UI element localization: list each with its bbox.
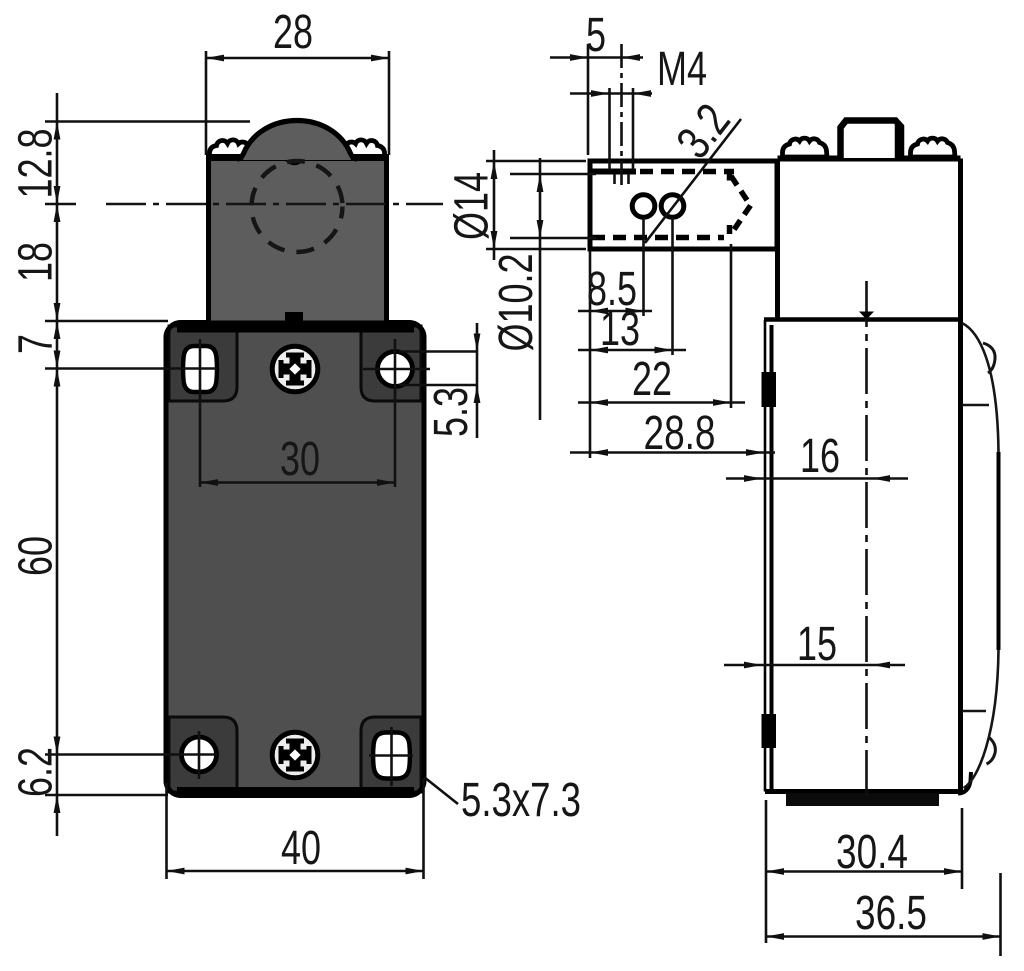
dimension O10.2	[490, 158, 596, 420]
side head block	[590, 161, 777, 249]
side body lower	[762, 320, 972, 794]
dimension 5.3 (hole dia, right of top-right screw)	[399, 323, 480, 438]
extension line body bottom	[45, 794, 168, 797]
label 3.2 with leader	[645, 95, 741, 243]
svg-text:16: 16	[800, 430, 840, 483]
dimension 36.5	[766, 873, 1001, 956]
phillips screw bottom-center	[272, 732, 318, 778]
svg-text:M4: M4	[657, 43, 707, 96]
phillips screw top-center	[272, 346, 318, 392]
cover tick bottom	[962, 710, 986, 713]
side cover bulge	[962, 323, 999, 788]
dimension 8.5	[578, 218, 652, 458]
dimension 30.4	[766, 800, 962, 943]
contact hole 1 (side)	[632, 195, 655, 218]
side body upper	[778, 159, 961, 792]
svg-text:5.3x7.3: 5.3x7.3	[461, 774, 581, 827]
dimension 16	[726, 430, 908, 483]
cover screw bump bottom	[987, 737, 996, 764]
dimension O14	[446, 150, 587, 260]
svg-text:36.5: 36.5	[855, 887, 927, 940]
svg-text:28: 28	[273, 6, 313, 59]
corner pocket bottom-right	[361, 717, 421, 792]
dome actuator	[243, 120, 351, 160]
contact hole 2 (side)	[661, 195, 684, 218]
screw hole bottom-left	[182, 731, 217, 779]
svg-text:6.2: 6.2	[10, 747, 63, 797]
body outline redraw	[166, 323, 424, 796]
svg-text:22: 22	[632, 353, 672, 406]
horizontal centerline through head	[106, 203, 443, 206]
switch body (front)	[166, 323, 424, 796]
svg-text:5: 5	[586, 9, 606, 62]
dimension 28 (head width)	[206, 6, 389, 155]
label 5.3x7.3 with leader	[424, 774, 581, 827]
dimension 15	[724, 618, 905, 671]
svg-text:60: 60	[10, 536, 63, 576]
extension line bottom screw center	[45, 753, 217, 756]
svg-text:18: 18	[10, 242, 63, 282]
bellows ear left (front)	[210, 140, 254, 157]
plunger on top	[841, 121, 902, 159]
extension line dome top	[45, 120, 250, 123]
dome chin notch	[287, 161, 302, 164]
svg-text:5.3: 5.3	[425, 387, 478, 437]
svg-text:30.4: 30.4	[836, 826, 908, 879]
dimension 5 (top)	[550, 9, 643, 155]
body bottom black band	[177, 787, 414, 795]
dimension 40 (body width)	[167, 779, 424, 879]
svg-text:Ø14: Ø14	[446, 172, 499, 240]
svg-text:13: 13	[600, 303, 640, 356]
screw slot top-left	[183, 339, 217, 487]
screw slot bottom-right	[369, 727, 413, 786]
bottom plate	[786, 793, 939, 806]
head-body junction tab	[285, 312, 303, 322]
dimension 13	[578, 218, 686, 356]
dashed slot in side head	[592, 172, 751, 238]
centerline tick triangle at body top	[859, 312, 874, 320]
svg-text:15: 15	[797, 618, 837, 671]
svg-text:28.8: 28.8	[644, 407, 716, 460]
extension tick centerline level	[45, 203, 76, 206]
dimension 28.8	[570, 407, 775, 460]
svg-text:40: 40	[281, 822, 321, 875]
svg-text:Ø10.2: Ø10.2	[490, 254, 543, 352]
chain arrows	[54, 122, 61, 140]
svg-text:30: 30	[280, 433, 320, 486]
screw hole top-right	[363, 339, 430, 487]
svg-text:7: 7	[10, 334, 63, 354]
extension line body top	[45, 320, 168, 323]
bellows ear right (front)	[341, 140, 385, 157]
head top line	[206, 154, 389, 161]
dimension M4	[570, 43, 707, 97]
corner pocket bottom-left	[169, 717, 237, 792]
M4 thread lines	[610, 44, 634, 187]
left dimension chain vertical line	[56, 93, 59, 836]
bellows ear left (side)	[783, 138, 828, 157]
cover tick top	[962, 404, 989, 407]
switch head (front)	[209, 157, 387, 323]
cover screw bump top	[983, 343, 995, 373]
corner pocket top-left	[169, 326, 237, 401]
dimension 22	[578, 244, 745, 408]
svg-text:12.8: 12.8	[10, 129, 63, 199]
dimension 30 (screw spacing)	[200, 433, 395, 486]
extension line top screw center	[45, 367, 217, 370]
dashed circle (roller bore)	[252, 161, 343, 252]
bellows ear right (side)	[911, 138, 956, 157]
body top black band	[177, 323, 414, 333]
corner pocket top-right	[361, 326, 421, 401]
vertical centerline (side body)	[865, 281, 868, 798]
